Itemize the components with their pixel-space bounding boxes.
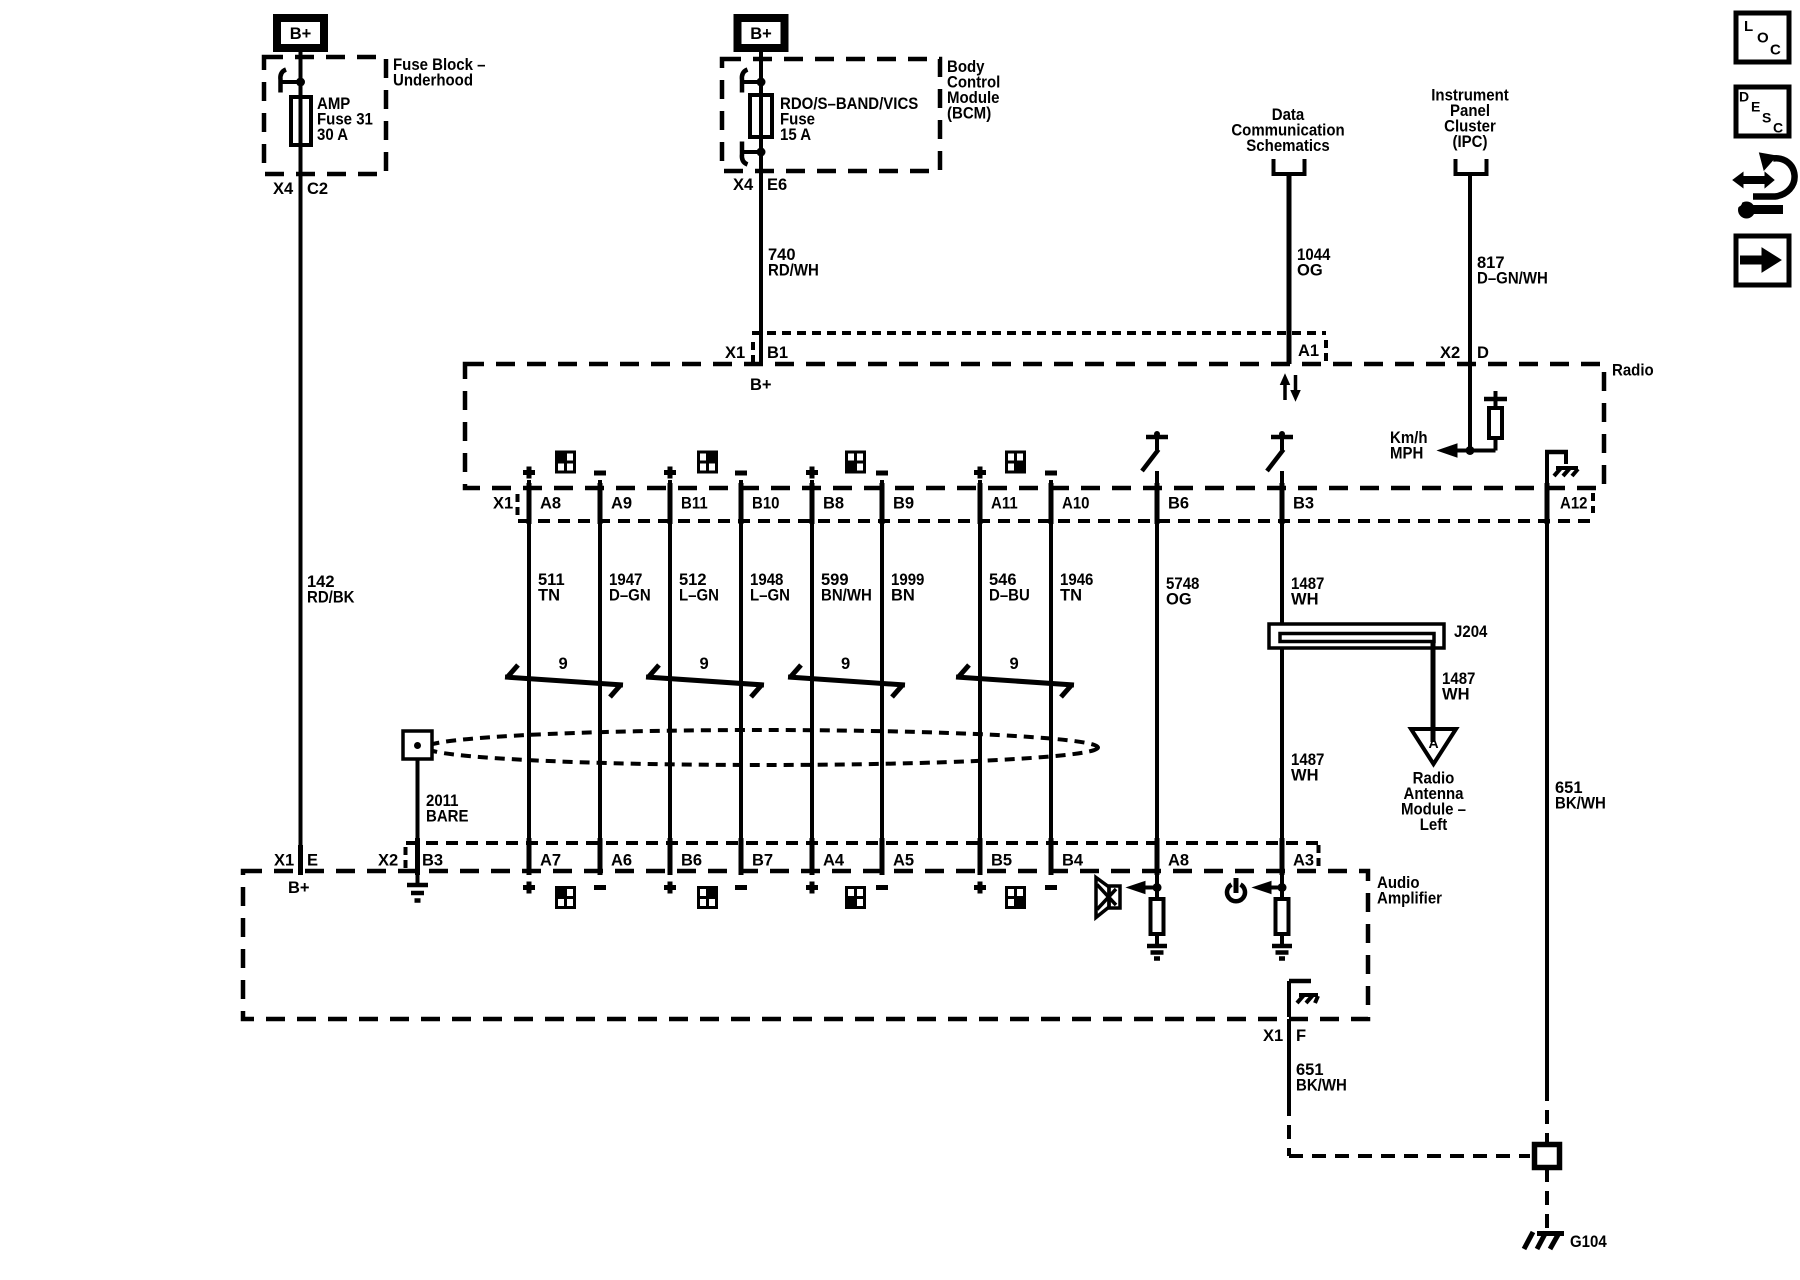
svg-text:A12: A12 [1560, 495, 1588, 513]
svg-text:Amplifier: Amplifier [1377, 890, 1443, 908]
svg-text:B+: B+ [750, 25, 772, 43]
svg-text:D: D [1739, 89, 1749, 105]
svg-text:D–GN: D–GN [609, 587, 651, 605]
svg-text:MPH: MPH [1390, 445, 1423, 463]
svg-text:BN/WH: BN/WH [821, 587, 872, 605]
svg-text:30 A: 30 A [317, 126, 348, 144]
svg-text:J204: J204 [1454, 623, 1488, 641]
svg-text:TN: TN [538, 587, 560, 605]
svg-text:L–GN: L–GN [679, 587, 719, 605]
svg-text:RD/WH: RD/WH [768, 262, 819, 280]
svg-text:A5: A5 [893, 852, 914, 870]
svg-text:E6: E6 [767, 176, 787, 194]
svg-text:A10: A10 [1062, 495, 1090, 513]
svg-text:A: A [1428, 735, 1438, 751]
svg-text:A8: A8 [1168, 852, 1189, 870]
svg-text:BK/WH: BK/WH [1555, 795, 1606, 813]
svg-text:B11: B11 [681, 495, 708, 513]
svg-text:A6: A6 [611, 852, 632, 870]
svg-text:L–GN: L–GN [750, 587, 790, 605]
svg-text:OG: OG [1166, 591, 1192, 609]
svg-text:15 A: 15 A [780, 126, 811, 144]
svg-text:L: L [1744, 18, 1753, 35]
svg-text:D–BU: D–BU [989, 587, 1030, 605]
svg-text:B+: B+ [288, 879, 310, 897]
svg-text:X1: X1 [725, 344, 745, 362]
svg-text:B6: B6 [1168, 495, 1189, 513]
svg-text:C: C [1773, 120, 1783, 136]
svg-text:BARE: BARE [426, 808, 469, 826]
svg-text:F: F [1296, 1027, 1306, 1045]
svg-text:WH: WH [1291, 767, 1319, 785]
svg-text:BN: BN [891, 587, 915, 605]
svg-text:RD/BK: RD/BK [307, 589, 355, 607]
svg-text:D: D [1477, 344, 1489, 362]
svg-text:B+: B+ [750, 376, 772, 394]
svg-text:B9: B9 [893, 495, 914, 513]
svg-text:A9: A9 [611, 495, 632, 513]
svg-text:X1: X1 [1263, 1027, 1283, 1045]
svg-text:(BCM): (BCM) [947, 105, 991, 123]
svg-text:A3: A3 [1293, 852, 1314, 870]
svg-text:O: O [1757, 30, 1769, 47]
svg-text:Schematics: Schematics [1246, 137, 1329, 155]
svg-text:C2: C2 [307, 180, 328, 198]
svg-text:TN: TN [1060, 587, 1082, 605]
svg-text:9: 9 [559, 655, 568, 673]
svg-text:Underhood: Underhood [393, 72, 473, 90]
svg-text:A11: A11 [991, 495, 1018, 513]
svg-text:S: S [1762, 110, 1771, 126]
svg-text:9: 9 [841, 655, 850, 673]
svg-text:B1: B1 [767, 344, 788, 362]
svg-text:X1: X1 [274, 852, 294, 870]
svg-text:B5: B5 [991, 852, 1012, 870]
svg-text:X2: X2 [378, 852, 398, 870]
svg-text:D–GN/WH: D–GN/WH [1477, 270, 1548, 288]
svg-text:9: 9 [1010, 655, 1019, 673]
svg-text:OG: OG [1297, 262, 1323, 280]
svg-text:B10: B10 [752, 495, 780, 513]
svg-text:B7: B7 [752, 852, 773, 870]
svg-text:X4: X4 [273, 180, 294, 198]
svg-text:E: E [307, 852, 318, 870]
svg-text:B+: B+ [290, 25, 312, 43]
svg-text:A4: A4 [823, 852, 845, 870]
svg-text:E: E [1751, 99, 1760, 115]
svg-text:BK/WH: BK/WH [1296, 1077, 1347, 1095]
svg-text:C: C [1770, 42, 1781, 59]
svg-text:X2: X2 [1440, 344, 1460, 362]
svg-text:B8: B8 [823, 495, 844, 513]
svg-text:G104: G104 [1570, 1233, 1607, 1251]
svg-text:A1: A1 [1298, 342, 1319, 360]
svg-text:9: 9 [700, 655, 709, 673]
svg-text:X4: X4 [733, 176, 754, 194]
svg-text:Left: Left [1420, 816, 1448, 834]
svg-text:WH: WH [1291, 591, 1319, 609]
svg-text:B3: B3 [1293, 495, 1314, 513]
svg-text:A8: A8 [540, 495, 561, 513]
svg-text:Radio: Radio [1612, 362, 1654, 380]
svg-text:B4: B4 [1062, 852, 1084, 870]
svg-text:B3: B3 [422, 852, 443, 870]
svg-text:X1: X1 [493, 495, 513, 513]
svg-text:WH: WH [1442, 686, 1470, 704]
svg-text:A7: A7 [540, 852, 561, 870]
svg-text:B6: B6 [681, 852, 702, 870]
svg-text:(IPC): (IPC) [1453, 133, 1488, 151]
